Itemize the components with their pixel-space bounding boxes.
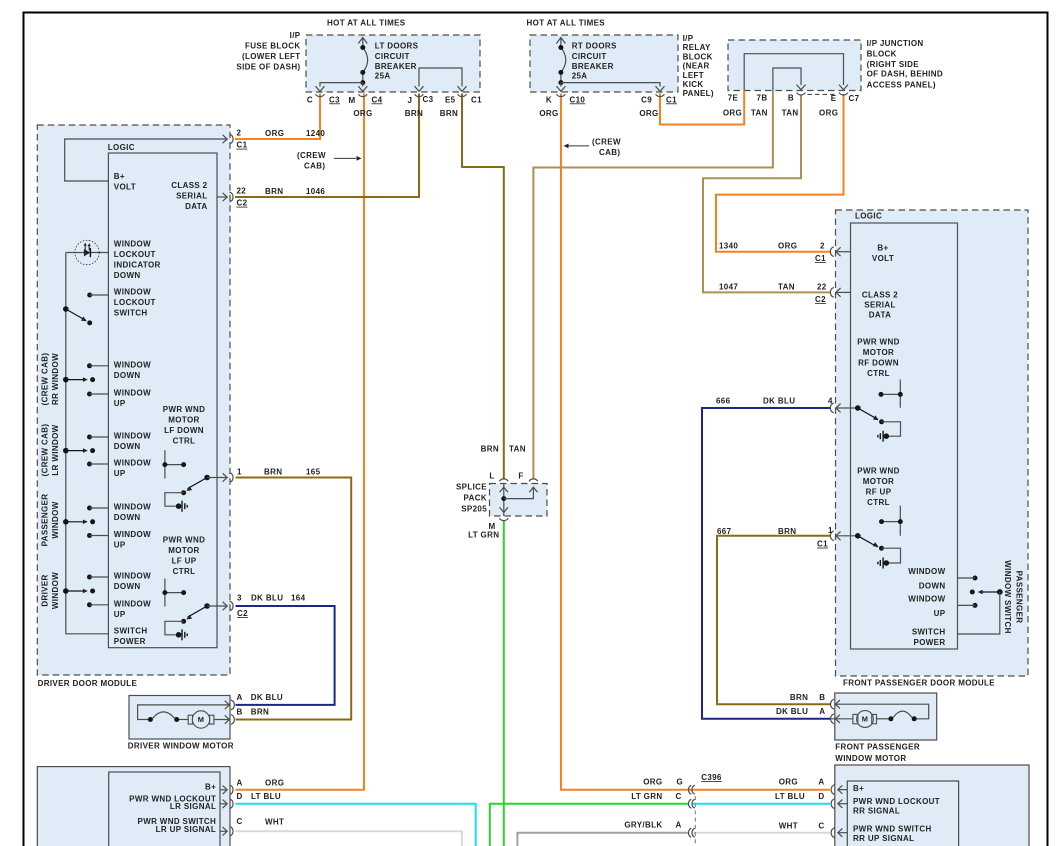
junction block jumper pins 7E to E — [744, 54, 843, 91]
svg-text:WINDOW: WINDOW — [114, 572, 151, 581]
svg-text:666: 666 — [716, 396, 731, 405]
wire ORG pin C9 relay block to junction block pin 7E — [660, 90, 744, 124]
svg-text:25A: 25A — [375, 72, 391, 81]
svg-text:D: D — [237, 792, 243, 801]
svg-text:C1: C1 — [471, 95, 482, 104]
svg-text:DRIVER DOOR MODULE: DRIVER DOOR MODULE — [38, 679, 138, 688]
svg-text:BREAKER: BREAKER — [375, 62, 417, 71]
svg-text:CTRL: CTRL — [867, 498, 890, 507]
label hot at all times right — [527, 19, 606, 28]
svg-text:(RIGHT SIDE: (RIGHT SIDE — [867, 60, 920, 69]
svg-text:ORG: ORG — [643, 778, 662, 787]
svg-text:PWR WND: PWR WND — [163, 405, 205, 414]
passenger window switch SW4 — [63, 506, 108, 539]
label connector C396 — [701, 773, 722, 782]
svg-text:PASSENGER: PASSENGER — [1015, 571, 1024, 624]
driver switch assembly pin C arrow and bump — [220, 826, 233, 836]
svg-text:C7: C7 — [849, 94, 860, 103]
fuse block jumper pins J to E5 — [419, 68, 462, 87]
svg-text:SERIAL: SERIAL — [864, 300, 895, 309]
svg-text:PASSENGER: PASSENGER — [41, 494, 50, 547]
driver window motor M1 — [138, 705, 230, 728]
svg-text:ORG: ORG — [265, 778, 284, 787]
svg-text:LF DOWN: LF DOWN — [164, 426, 204, 435]
svg-text:WINDOW: WINDOW — [114, 389, 151, 398]
rotated label passenger window — [41, 494, 61, 547]
rear switch module pin C arrow and bump — [831, 828, 847, 838]
svg-text:POWER: POWER — [914, 638, 946, 647]
wire LT BLU driver switch assembly pin D down off page — [236, 804, 476, 846]
svg-text:CTRL: CTRL — [173, 437, 196, 446]
svg-text:DATA: DATA — [185, 202, 207, 211]
fuse block pin C connector — [316, 86, 325, 96]
breaker pin K connector — [556, 86, 565, 96]
svg-text:LT BLU: LT BLU — [251, 792, 281, 801]
svg-text:LT GRN: LT GRN — [631, 792, 662, 801]
svg-text:LR WINDOW: LR WINDOW — [51, 424, 60, 475]
svg-text:M: M — [349, 96, 356, 105]
pwr wnd motor LF up ctrl relay K2 — [165, 602, 227, 641]
wire LT GRN from off page to C396 pin C — [490, 804, 689, 846]
front passenger door module box — [836, 210, 1029, 676]
svg-text:WINDOW: WINDOW — [114, 288, 151, 297]
wire TAN junction pin 7B to splice pack pin F — [533, 90, 773, 479]
splice pack pin M arrow — [500, 507, 508, 512]
inline connector C396 dashed line — [694, 796, 696, 846]
svg-text:B: B — [788, 94, 794, 103]
wire BRN 667 passenger module pin 1/C1 to passenger window motor pin B — [717, 536, 830, 704]
svg-text:1047: 1047 — [719, 283, 738, 292]
LR window switch SW3 — [63, 435, 108, 467]
svg-text:C1: C1 — [817, 540, 828, 549]
svg-text:TAN: TAN — [782, 108, 799, 117]
svg-text:I/P: I/P — [683, 34, 694, 43]
driver pin 2 row labels ORG 1240 — [237, 129, 326, 150]
wire WHT driver switch assembly pin C down off page — [236, 831, 462, 846]
svg-text:DRIVER: DRIVER — [41, 574, 50, 606]
pwr wnd motor RF down ctrl relay K3 — [836, 404, 901, 442]
svg-text:FUSE BLOCK: FUSE BLOCK — [245, 42, 301, 51]
crew cab note right with arrow — [564, 138, 621, 158]
wire BRN 165 driver module pin 1 to driver window motor pin B — [236, 478, 352, 720]
svg-text:C2: C2 — [237, 609, 248, 618]
svg-text:C1: C1 — [815, 254, 826, 263]
svg-text:1340: 1340 — [719, 242, 738, 251]
svg-text:UP: UP — [114, 469, 126, 478]
svg-text:A: A — [676, 820, 682, 829]
svg-text:TAN: TAN — [509, 444, 526, 453]
svg-text:ORG: ORG — [723, 108, 742, 117]
svg-text:OF DASH, BEHIND: OF DASH, BEHIND — [867, 69, 943, 78]
svg-text:A: A — [237, 693, 243, 702]
svg-text:DK BLU: DK BLU — [251, 693, 283, 702]
svg-text:BRN: BRN — [481, 444, 499, 453]
svg-text:C2: C2 — [237, 199, 248, 208]
driver motor pin labels A DK BLU / B BRN — [237, 693, 284, 717]
passenger pin 1 row labels 667 BRN 1 — [717, 526, 833, 549]
inline connector C396 pin A arcs — [688, 828, 694, 837]
svg-text:BRN: BRN — [440, 109, 458, 118]
svg-text:2: 2 — [820, 242, 825, 251]
relay block pin C9 connector — [656, 86, 665, 96]
motor M letter labels — [198, 715, 869, 725]
svg-text:RT DOORS: RT DOORS — [572, 41, 617, 50]
svg-text:7B: 7B — [757, 94, 768, 103]
passenger window switch SW6 — [958, 576, 1003, 635]
svg-text:DATA: DATA — [869, 310, 891, 319]
svg-text:LOCKOUT: LOCKOUT — [114, 298, 156, 307]
svg-text:22: 22 — [817, 283, 827, 292]
svg-text:(CREW CAB): (CREW CAB) — [41, 424, 50, 477]
C396 left side labels — [624, 778, 683, 830]
wire ORG 1240 pin C fuse block to driver module C1 — [235, 94, 320, 140]
front passenger module logic box U2 — [851, 223, 958, 649]
svg-text:C10: C10 — [570, 95, 586, 104]
circuit breaker CB1 LT doors 25A — [320, 38, 368, 87]
driver switch assembly pin A arrow and bump — [220, 785, 233, 795]
svg-text:PWR WND: PWR WND — [857, 338, 899, 347]
svg-text:K: K — [546, 95, 552, 104]
svg-text:B+: B+ — [205, 783, 216, 792]
svg-text:(NEAR: (NEAR — [683, 61, 710, 70]
svg-text:25A: 25A — [572, 72, 588, 81]
svg-text:LT DOORS: LT DOORS — [375, 41, 419, 50]
label RT doors circuit breaker — [572, 41, 617, 80]
svg-text:(CREW: (CREW — [592, 138, 621, 147]
svg-text:UP: UP — [934, 609, 946, 618]
svg-text:WINDOW: WINDOW — [114, 240, 151, 249]
svg-text:CLASS 2: CLASS 2 — [862, 290, 898, 299]
svg-text:WINDOW MOTOR: WINDOW MOTOR — [835, 754, 906, 763]
passenger pin C1 row labels 1340 ORG 2 — [719, 242, 826, 264]
svg-text:ORG: ORG — [265, 129, 284, 138]
pwr wnd motor RF up ctrl contact T — [879, 506, 903, 536]
svg-text:(CREW CAB): (CREW CAB) — [41, 353, 50, 406]
svg-text:C: C — [818, 821, 824, 830]
driver module pin 2/C1 bump — [230, 134, 233, 144]
svg-text:CTRL: CTRL — [173, 567, 196, 576]
wire color labels RT breaker — [539, 109, 658, 118]
svg-text:HOT AT ALL TIMES: HOT AT ALL TIMES — [327, 19, 406, 28]
driver motor pin B arrow and bump — [225, 715, 235, 725]
svg-text:LT GRN: LT GRN — [468, 531, 499, 540]
svg-text:BREAKER: BREAKER — [572, 62, 614, 71]
svg-text:A: A — [819, 707, 825, 716]
wire ORG pin K/C10 breaker to C396 and rear switch module pin A — [561, 94, 830, 790]
label LT doors circuit breaker — [375, 41, 419, 80]
svg-text:BLOCK: BLOCK — [867, 50, 897, 59]
svg-text:C4: C4 — [372, 95, 383, 104]
svg-text:ORG: ORG — [779, 778, 798, 787]
svg-text:ORG: ORG — [778, 242, 797, 251]
driver switch assembly pin row labels — [237, 778, 285, 826]
wire BRN 1046 fuse block pin J to driver module C2 — [235, 94, 419, 198]
svg-text:WINDOW SWITCH: WINDOW SWITCH — [1003, 560, 1012, 633]
svg-text:A: A — [818, 778, 824, 787]
svg-text:ORG: ORG — [353, 109, 372, 118]
svg-text:B: B — [819, 693, 825, 702]
wire LT GRN splice pack pin M down off page — [503, 521, 505, 846]
svg-text:VOLT: VOLT — [872, 254, 894, 263]
svg-text:LR SIGNAL: LR SIGNAL — [170, 802, 216, 811]
passenger module pin C1 arrow — [836, 247, 851, 256]
driver module class 2 serial data wire pin 22/C2 — [217, 193, 227, 201]
wire BRN fuse block pin E5/C1 to splice pack pin L — [462, 94, 504, 480]
passenger motor pin A arrow and bump — [831, 714, 840, 724]
wire ORG pin M/C4 fuse block down to driver switch assembly pin A — [236, 94, 365, 790]
label driver door module — [38, 679, 138, 688]
svg-text:1: 1 — [237, 468, 242, 477]
svg-text:B+: B+ — [877, 244, 888, 253]
svg-text:DOWN: DOWN — [114, 582, 141, 591]
svg-text:SERIAL: SERIAL — [176, 192, 207, 201]
wire WHT C396 pin A to rear switch module pin C — [692, 832, 831, 834]
label driver window motor — [128, 742, 234, 751]
pin labels junction block — [728, 94, 860, 103]
splice pack pin L cup — [499, 479, 508, 481]
rotated label crew cab RR window — [41, 353, 61, 406]
wire GRY/BLK from off page to C396 pin A — [517, 833, 689, 846]
svg-text:BRN: BRN — [778, 527, 796, 536]
splice wire labels BRN TAN LT GRN — [468, 444, 526, 539]
svg-text:PWR WND: PWR WND — [163, 536, 205, 545]
driver switch assembly pin D arrow and bump — [220, 799, 233, 809]
svg-text:DOWN: DOWN — [114, 442, 141, 451]
svg-text:CAB): CAB) — [599, 148, 620, 157]
passenger pin 4 row labels 666 DK BLU 4 — [716, 396, 833, 405]
driver pin 3 row labels DK BLU 164 — [237, 594, 306, 619]
svg-text:WINDOW: WINDOW — [51, 501, 60, 538]
svg-text:MOTOR: MOTOR — [863, 348, 894, 357]
svg-text:7E: 7E — [728, 94, 739, 103]
svg-text:VOLT: VOLT — [114, 183, 136, 192]
svg-text:BRN: BRN — [265, 187, 283, 196]
svg-text:DOWN: DOWN — [919, 582, 946, 591]
svg-text:ORG: ORG — [539, 109, 558, 118]
svg-text:DRIVER WINDOW MOTOR: DRIVER WINDOW MOTOR — [128, 742, 234, 751]
svg-text:ORG: ORG — [819, 108, 838, 117]
svg-text:C: C — [307, 95, 313, 104]
svg-text:SIDE OF DASH): SIDE OF DASH) — [236, 63, 300, 72]
rear window switch module box (bottom right) — [835, 765, 1029, 846]
svg-text:PWR WND SWITCH: PWR WND SWITCH — [853, 824, 932, 833]
svg-text:PANEL): PANEL) — [683, 89, 714, 98]
pwr wnd motor LF down ctrl contact T — [162, 450, 186, 478]
crew cab note left with arrow — [297, 151, 362, 171]
svg-text:1240: 1240 — [306, 129, 325, 138]
wire DK BLU 666 passenger module pin 4 to passenger window motor pin A — [702, 408, 830, 719]
svg-text:BRN: BRN — [251, 708, 269, 717]
svg-text:I/P JUNCTION: I/P JUNCTION — [867, 39, 924, 48]
svg-text:165: 165 — [306, 468, 321, 477]
pin labels RT breaker — [546, 95, 677, 104]
rear switch module pin A arrow and bump — [831, 785, 847, 795]
pin labels fuse block — [307, 95, 482, 105]
wire color labels fuse block — [353, 109, 458, 118]
svg-text:BLOCK: BLOCK — [683, 52, 713, 61]
svg-text:ACCESS PANEL): ACCESS PANEL) — [867, 80, 936, 89]
I/P fuse block (LT doors breaker) box — [306, 35, 480, 92]
pwr wnd motor LF down ctrl relay K1 — [165, 473, 227, 511]
svg-text:MOTOR: MOTOR — [863, 477, 894, 486]
svg-text:WINDOW: WINDOW — [114, 459, 151, 468]
svg-text:BRN: BRN — [790, 693, 808, 702]
svg-text:C1: C1 — [666, 95, 677, 104]
driver module pwr wnd motor LF down ctrl label — [163, 405, 205, 446]
svg-text:WHT: WHT — [265, 817, 284, 826]
svg-text:SP205: SP205 — [461, 505, 487, 514]
pwr wnd motor LF up ctrl contact T — [162, 579, 186, 607]
svg-text:C: C — [237, 817, 243, 826]
svg-text:HOT AT ALL TIMES: HOT AT ALL TIMES — [527, 19, 606, 28]
driver window motor box — [129, 696, 230, 740]
svg-text:F: F — [518, 471, 523, 480]
label I/P fuse block location — [236, 31, 300, 72]
svg-text:UP: UP — [114, 610, 126, 619]
svg-text:FRONT PASSENGER DOOR MODULE: FRONT PASSENGER DOOR MODULE — [843, 678, 995, 687]
rotated label crew cab LR window — [41, 424, 61, 477]
svg-text:MOTOR: MOTOR — [168, 546, 199, 555]
driver switch assembly box (bottom left) — [37, 767, 230, 846]
driver module switch power bus — [66, 253, 109, 634]
svg-text:DK BLU: DK BLU — [776, 707, 808, 716]
splice pack junction node — [501, 487, 533, 501]
svg-text:KICK: KICK — [683, 80, 704, 89]
svg-text:J: J — [408, 96, 413, 105]
wire TAN 1047 junction pin B to passenger module C2 — [703, 95, 830, 293]
svg-text:RR UP SIGNAL: RR UP SIGNAL — [853, 834, 914, 843]
splice pack pin M cup — [499, 518, 508, 520]
driver switch assembly inner box — [109, 772, 220, 846]
svg-text:WINDOW: WINDOW — [114, 360, 151, 369]
svg-text:BRN: BRN — [264, 468, 282, 477]
driver module pin 3/C2 bump — [230, 601, 233, 611]
passenger module pin C1 bump — [830, 247, 833, 257]
svg-text:M: M — [488, 522, 495, 531]
svg-text:GRY/BLK: GRY/BLK — [624, 820, 662, 829]
svg-text:1: 1 — [828, 526, 833, 535]
svg-text:WINDOW: WINDOW — [114, 432, 151, 441]
svg-text:WINDOW: WINDOW — [908, 567, 945, 576]
driver module pin 1 bump — [230, 473, 233, 483]
I/P junction block box — [728, 40, 861, 91]
passenger module pin C2 bump — [830, 288, 833, 298]
svg-text:A: A — [237, 778, 243, 787]
window lockout switch SW1 — [63, 293, 108, 326]
driver pin 22 row labels BRN 1046 — [237, 187, 326, 208]
svg-text:LOCKOUT: LOCKOUT — [114, 250, 156, 259]
rear switch module pin row labels — [775, 778, 824, 831]
svg-text:PACK: PACK — [464, 494, 487, 503]
svg-text:DK BLU: DK BLU — [763, 396, 795, 405]
driver module internal labels column — [114, 172, 208, 646]
svg-text:164: 164 — [291, 594, 306, 603]
svg-text:SWITCH: SWITCH — [114, 627, 148, 636]
junction block pin B connector — [797, 85, 806, 95]
svg-text:PWR WND: PWR WND — [857, 467, 899, 476]
splice pack pin F cup — [529, 479, 538, 481]
svg-text:E5: E5 — [445, 95, 456, 104]
svg-text:RF DOWN: RF DOWN — [858, 359, 899, 368]
svg-text:UP: UP — [114, 541, 126, 550]
svg-text:CAB): CAB) — [304, 162, 325, 171]
fuse block pin E5 connector — [458, 86, 467, 96]
driver module pwr wnd motor LF up ctrl label — [163, 536, 205, 577]
svg-text:LEFT: LEFT — [683, 71, 704, 80]
RR window switch SW2 — [63, 363, 108, 396]
fuse block pin M connector — [358, 86, 367, 96]
pwr wnd motor RF up ctrl relay K4 — [836, 531, 901, 568]
driver door module box — [37, 125, 230, 675]
svg-text:LT BLU: LT BLU — [775, 792, 805, 801]
splice pack internal: pin L arrow — [500, 484, 508, 517]
driver motor pin A arrow and bump — [225, 700, 235, 710]
svg-text:C396: C396 — [701, 773, 722, 782]
splice pin letters L F M — [488, 471, 523, 530]
svg-text:DK BLU: DK BLU — [251, 594, 283, 603]
svg-text:RELAY: RELAY — [683, 43, 711, 52]
svg-text:B+: B+ — [853, 784, 864, 793]
inline connector C396 pin C arcs — [688, 799, 694, 808]
svg-text:M: M — [862, 715, 869, 724]
rear switch module internal labels — [853, 784, 940, 843]
label logic passenger module — [855, 211, 882, 220]
svg-text:RR SIGNAL: RR SIGNAL — [853, 806, 900, 815]
svg-text:PWR WND LOCKOUT: PWR WND LOCKOUT — [853, 797, 940, 806]
svg-text:CIRCUIT: CIRCUIT — [572, 52, 607, 61]
svg-text:B+: B+ — [114, 172, 125, 181]
passenger motor pin B arrow and bump — [831, 699, 840, 709]
svg-text:I/P: I/P — [290, 31, 301, 40]
svg-text:TAN: TAN — [778, 283, 795, 292]
svg-text:(LOWER LEFT: (LOWER LEFT — [242, 52, 301, 61]
svg-text:DOWN: DOWN — [114, 371, 141, 380]
label logic driver module — [108, 143, 135, 152]
svg-text:SWITCH: SWITCH — [912, 628, 946, 637]
circuit breaker CB2 RT doors 25A — [556, 38, 660, 87]
driver module pin 22/C2 bump — [230, 192, 233, 202]
svg-text:WHT: WHT — [779, 821, 798, 830]
svg-text:CTRL: CTRL — [867, 369, 890, 378]
passenger window motor M2 — [831, 704, 929, 727]
svg-text:C3: C3 — [329, 95, 340, 104]
passenger pin C2 row labels 1047 TAN 22 — [719, 283, 827, 305]
svg-text:TAN: TAN — [751, 108, 768, 117]
rotated label driver window — [41, 572, 61, 609]
svg-text:DOWN: DOWN — [114, 271, 141, 280]
svg-text:C: C — [676, 792, 682, 801]
svg-text:D: D — [818, 792, 824, 801]
RT doors breaker box — [530, 35, 678, 92]
passenger motor pin labels BRN B / DK BLU A — [776, 693, 825, 716]
svg-text:667: 667 — [717, 527, 732, 536]
svg-text:L: L — [489, 471, 494, 480]
svg-text:WINDOW: WINDOW — [114, 599, 151, 608]
svg-text:C3: C3 — [423, 95, 434, 104]
junction block pin E/C7 connector — [839, 85, 848, 95]
svg-text:WINDOW: WINDOW — [51, 572, 60, 609]
svg-text:RR WINDOW: RR WINDOW — [51, 353, 60, 405]
svg-text:ORG: ORG — [639, 109, 658, 118]
wire ORG 1340 junction pin E/C7 to passenger module C1 — [716, 94, 844, 252]
junction block jumper pins 7B to B — [773, 68, 801, 90]
svg-text:4: 4 — [828, 396, 833, 405]
svg-text:2: 2 — [237, 129, 242, 138]
label I/P relay block location — [683, 34, 714, 98]
svg-text:FRONT PASSENGER: FRONT PASSENGER — [835, 743, 920, 752]
svg-text:LF UP: LF UP — [172, 557, 197, 566]
svg-text:C2: C2 — [815, 295, 826, 304]
